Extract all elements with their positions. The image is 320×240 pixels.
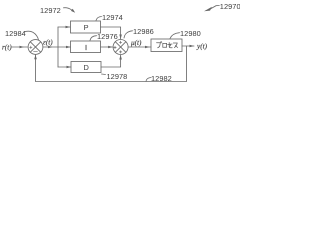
block D 12978 xyxy=(71,62,101,73)
svg-text:12970: 12970 xyxy=(220,2,240,11)
wire feedback loop xyxy=(34,46,186,82)
katakana SU xyxy=(173,43,177,48)
svg-text:P: P xyxy=(84,23,89,32)
wire epsilon to branch bus xyxy=(43,46,58,49)
wire bus to I xyxy=(58,46,71,49)
label 12974 xyxy=(96,13,123,22)
wire P output to summing junction 2 xyxy=(101,27,122,39)
svg-text:12978: 12978 xyxy=(107,72,128,81)
svg-text:y(t): y(t) xyxy=(196,43,208,51)
svg-text:ε(t): ε(t) xyxy=(43,39,53,47)
summing junction 12986 xyxy=(113,40,128,55)
svg-text:D: D xyxy=(84,63,89,72)
svg-text:12980: 12980 xyxy=(180,29,201,38)
svg-text:12986: 12986 xyxy=(133,27,154,36)
label 12982 xyxy=(146,74,172,83)
label 12984 xyxy=(5,29,39,40)
wire branch bus vertical xyxy=(57,27,59,67)
wire bus to D xyxy=(58,66,71,69)
label 12978 xyxy=(102,72,128,81)
summing junction 12984 xyxy=(28,40,43,55)
katakana SE xyxy=(168,43,173,48)
label 12976 xyxy=(90,32,118,41)
wire I output to summing junction 2 xyxy=(101,46,113,49)
svg-text:12972: 12972 xyxy=(40,6,61,15)
block I 12976 xyxy=(71,41,101,53)
svg-text:12976: 12976 xyxy=(97,32,118,41)
wire process output to y(t) xyxy=(182,45,194,48)
svg-text:I: I xyxy=(85,43,87,52)
svg-text:12982: 12982 xyxy=(151,74,172,83)
katakana RO xyxy=(163,43,167,47)
label 12980 xyxy=(170,29,201,39)
label 12972 xyxy=(40,6,75,15)
block P 12974 xyxy=(71,21,101,33)
svg-text:12984: 12984 xyxy=(5,29,26,38)
svg-text:r(t): r(t) xyxy=(2,44,12,52)
svg-text:12974: 12974 xyxy=(102,13,123,22)
label 12970 xyxy=(204,2,241,11)
wire r(t) to summing junction xyxy=(11,46,28,49)
wire bus to P xyxy=(58,26,70,29)
block process 12980 xyxy=(151,39,182,52)
wire D output to summing junction 2 xyxy=(101,55,122,67)
label 12986 xyxy=(124,27,154,38)
svg-text:μ(t): μ(t) xyxy=(131,39,142,47)
wire mu to process xyxy=(128,46,151,49)
katakana PU xyxy=(157,43,161,48)
